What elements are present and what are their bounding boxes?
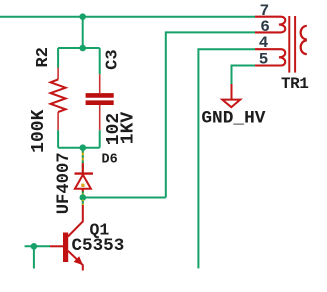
svg-text:1KV: 1KV [118, 112, 138, 145]
transformer TR1 pin 7 stub and winding lobe [255, 17, 285, 33]
node junction below diode [80, 194, 87, 201]
wire R2 top lead green [57, 48, 59, 68]
wire rail below diode to pin 6 riser [83, 197, 166, 199]
capacitor C3 bottom plate [86, 100, 114, 105]
wire dash visible through diode [81, 184, 84, 187]
wire dashed overlap diode column upper [82, 150, 84, 172]
wire C3 bottom green [99, 130, 101, 147]
diode D6 bottom pin [82, 189, 84, 192]
svg-text:4: 4 [259, 34, 269, 52]
svg-text:R2: R2 [34, 47, 53, 67]
transistor Q1 emitter arrow [74, 256, 83, 265]
wire pin 4 riser [198, 49, 255, 268]
capacitor C3 top pin [99, 74, 101, 93]
transformer TR1 core bar right [294, 16, 296, 73]
wire R2 bottom green [57, 130, 59, 147]
transformer TR1 pin 4-5 winding [255, 49, 285, 65]
wire pin 6 riser [166, 32, 255, 197]
node junction RC top rail [79, 45, 86, 52]
wire top rail net to pin 7 [0, 16, 255, 18]
svg-text:100K: 100K [29, 109, 49, 152]
wire base drop [33, 246, 35, 268]
power symbol GND_HV triangle [222, 100, 240, 108]
diode D6 cathode bar [75, 172, 94, 174]
node junction base rail [31, 243, 38, 250]
wire RC bottom rail [58, 147, 100, 149]
wire dashed overlap diode column lower [82, 190, 84, 196]
svg-text:D6: D6 [102, 152, 118, 167]
resistor R2 bottom pin [57, 112, 59, 130]
wire vertical from top rail to RC rail [82, 17, 84, 48]
resistor R1 top pin [57, 68, 59, 80]
svg-text:TR1: TR1 [281, 75, 308, 93]
wire base rail [25, 245, 50, 247]
transformer TR1 core bar left [288, 16, 290, 73]
svg-text:C5353: C5353 [72, 236, 125, 256]
svg-text:GND_HV: GND_HV [201, 108, 265, 128]
svg-text:5: 5 [259, 50, 269, 68]
transistor Q1 base pin [50, 245, 63, 247]
capacitor C3 top plate [86, 93, 114, 98]
diode D6 triangle [75, 175, 91, 189]
transformer TR1 secondary winding upper [301, 26, 307, 40]
transistor Q1 collector pin [68, 205, 83, 237]
wire pin 5 stub [232, 66, 256, 85]
transistor Q1 emitter [68, 251, 83, 271]
transformer TR1 secondary winding lower [301, 40, 307, 54]
node junction top rail [79, 13, 86, 20]
node junction RC bottom rail [80, 144, 87, 151]
wire C3 top lead green [99, 48, 101, 74]
wire dashed overlap collector [82, 200, 84, 206]
power symbol GND_HV lead [231, 84, 233, 99]
svg-text:C3: C3 [103, 49, 122, 69]
diode D6 top pin [82, 163, 84, 174]
transistor Q1 base bar [63, 233, 68, 263]
resistor R2 zigzag [51, 80, 66, 113]
wire RC top rail [58, 47, 100, 49]
capacitor C3 bottom pin [99, 105, 101, 130]
svg-text:UF4007: UF4007 [55, 152, 74, 214]
